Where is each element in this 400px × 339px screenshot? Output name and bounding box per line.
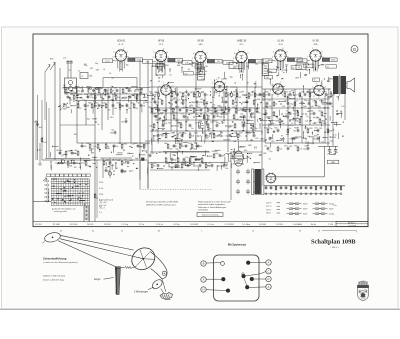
- svg-text:100: 100: [219, 166, 222, 168]
- svg-text:7: 7: [201, 230, 202, 232]
- svg-text:C5: C5: [112, 160, 114, 162]
- svg-text:10k: 10k: [227, 95, 230, 97]
- svg-text:C19: C19: [220, 163, 223, 165]
- svg-text:1n5: 1n5: [43, 142, 46, 144]
- svg-text:S45: S45: [274, 128, 277, 130]
- svg-text:UY 85: UY 85: [312, 40, 319, 42]
- svg-text:350V: 350V: [303, 214, 308, 216]
- svg-text:2k2: 2k2: [155, 75, 158, 77]
- svg-text:15p: 15p: [255, 64, 258, 66]
- svg-text:1k: 1k: [157, 102, 159, 104]
- svg-text:L38: L38: [177, 123, 180, 125]
- svg-text:Innenwiderstand: Innenwiderstand: [99, 198, 113, 201]
- svg-text:10k: 10k: [123, 163, 126, 165]
- svg-text:68k: 68k: [286, 97, 289, 99]
- svg-text:R14: R14: [188, 143, 191, 145]
- svg-text:100: 100: [215, 114, 218, 116]
- svg-text:10k: 10k: [142, 106, 145, 108]
- svg-text:50p: 50p: [75, 97, 78, 99]
- svg-text:S31: S31: [257, 99, 260, 101]
- svg-text:S70: S70: [70, 160, 73, 162]
- svg-text:100: 100: [285, 114, 288, 116]
- svg-text:47: 47: [112, 78, 114, 80]
- svg-text:5: 5: [318, 98, 319, 100]
- svg-text:4798: 4798: [99, 194, 103, 196]
- svg-text:4: 4: [153, 57, 154, 59]
- svg-text:C38: C38: [170, 133, 173, 135]
- svg-text:1M: 1M: [151, 153, 154, 155]
- svg-text:R64: R64: [194, 133, 197, 135]
- svg-text:L55: L55: [125, 88, 128, 90]
- svg-text:3n: 3n: [61, 156, 63, 158]
- svg-text:2n2: 2n2: [253, 171, 256, 173]
- svg-text:S20: S20: [196, 92, 199, 94]
- svg-text:unten gesehen: unten gesehen: [54, 210, 67, 213]
- svg-text:C56: C56: [192, 157, 195, 159]
- svg-text:1k: 1k: [130, 91, 132, 93]
- svg-text:C19: C19: [86, 143, 89, 145]
- svg-text:C63: C63: [130, 103, 133, 105]
- svg-text:2k2: 2k2: [74, 167, 77, 169]
- svg-text:2M2: 2M2: [63, 108, 67, 110]
- svg-text:220: 220: [175, 119, 178, 121]
- svg-text:R42: R42: [148, 107, 151, 109]
- svg-text:68k: 68k: [263, 153, 266, 155]
- svg-text:50p: 50p: [173, 160, 176, 162]
- svg-text:4,5 +0,5: 4,5 +0,5: [100, 202, 108, 204]
- svg-text:30 +3: 30 +3: [100, 208, 106, 210]
- svg-text:6k8: 6k8: [91, 153, 94, 155]
- svg-text:UF 80: UF 80: [197, 40, 204, 42]
- svg-text:C47: C47: [185, 92, 188, 94]
- svg-text:1n5: 1n5: [115, 146, 118, 148]
- svg-text:2M2: 2M2: [123, 143, 127, 145]
- svg-text:100: 100: [83, 146, 86, 148]
- svg-text:R23: R23: [233, 92, 236, 94]
- svg-text:R53: R53: [294, 128, 297, 130]
- svg-text:100: 100: [196, 110, 199, 112]
- svg-text:S49: S49: [155, 107, 158, 109]
- svg-text:6: 6: [216, 79, 217, 81]
- svg-text:330: 330: [313, 139, 316, 141]
- svg-text:6: 6: [193, 53, 194, 55]
- svg-text:B: B: [203, 262, 205, 266]
- svg-text:15p: 15p: [185, 117, 188, 119]
- svg-text:D: D: [268, 277, 270, 281]
- svg-text:1M: 1M: [293, 114, 296, 116]
- svg-text:C64: C64: [204, 123, 207, 125]
- svg-text:3n: 3n: [191, 128, 193, 130]
- svg-text:UL 84: UL 84: [277, 40, 284, 42]
- svg-text:10k: 10k: [175, 138, 178, 140]
- svg-text:6L31: 6L31: [105, 61, 109, 63]
- svg-text:13: 13: [318, 230, 320, 232]
- svg-text:L10: L10: [239, 92, 242, 94]
- svg-text:6: 6: [282, 94, 283, 96]
- svg-text:5n: 5n: [209, 128, 211, 130]
- svg-text:6: 6: [211, 88, 212, 90]
- svg-text:50p: 50p: [215, 153, 218, 155]
- svg-text:L5 Osz: L5 Osz: [208, 224, 214, 226]
- svg-text:C40: C40: [190, 107, 193, 109]
- svg-text:UABC 80: UABC 80: [237, 39, 247, 42]
- svg-text:UCH 81: UCH 81: [117, 40, 126, 42]
- svg-text:330: 330: [73, 153, 76, 155]
- svg-text:0,1: 0,1: [189, 163, 192, 165]
- svg-text:500: 500: [183, 133, 186, 135]
- svg-text:S1: S1: [174, 92, 176, 94]
- svg-text:12k: 12k: [177, 99, 180, 101]
- svg-text:C2 5n: C2 5n: [139, 224, 144, 226]
- svg-text:C33: C33: [102, 103, 105, 105]
- svg-text:5n: 5n: [239, 136, 241, 138]
- svg-text:2: 2: [113, 51, 114, 53]
- svg-text:500: 500: [166, 65, 169, 67]
- svg-text:R42: R42: [194, 143, 197, 145]
- svg-text:R24: R24: [210, 114, 213, 116]
- svg-text:R63: R63: [172, 163, 175, 165]
- svg-text:10k: 10k: [176, 126, 179, 128]
- svg-text:100: 100: [324, 104, 327, 106]
- svg-text:gedruckte Schaltplatte von: gedruckte Schaltplatte von: [52, 207, 76, 210]
- svg-text:12k: 12k: [111, 165, 114, 167]
- svg-text:L4: L4: [103, 69, 105, 71]
- svg-text:S22: S22: [56, 150, 59, 152]
- svg-text:4k7: 4k7: [177, 166, 180, 168]
- svg-text:9: 9: [113, 57, 114, 59]
- svg-text:127 V~: 127 V~: [266, 206, 273, 208]
- svg-text:2M2: 2M2: [248, 145, 252, 147]
- svg-text:C58: C58: [304, 146, 307, 148]
- svg-text:1n5: 1n5: [341, 106, 344, 108]
- svg-text:0,1: 0,1: [235, 102, 238, 104]
- svg-text:10k: 10k: [301, 114, 304, 116]
- svg-text:Mit Spulensatz: Mit Spulensatz: [228, 242, 247, 246]
- svg-text:ZF Durchlass 452 kHz ±2 kHz: ZF Durchlass 452 kHz ±2 kHz UKW: [146, 201, 178, 203]
- svg-text:5n: 5n: [156, 130, 158, 132]
- svg-text:15p: 15p: [84, 65, 87, 67]
- svg-text:1n5: 1n5: [299, 149, 302, 151]
- svg-text:6k8: 6k8: [96, 70, 99, 72]
- svg-text:4k7: 4k7: [332, 95, 335, 97]
- svg-text:2M2: 2M2: [129, 160, 133, 162]
- svg-text:4: 4: [205, 63, 206, 65]
- svg-text:R71: R71: [190, 114, 193, 116]
- svg-text:L15: L15: [316, 118, 319, 120]
- svg-text:3n: 3n: [72, 91, 74, 93]
- svg-text:C47: C47: [306, 92, 309, 94]
- svg-text:2: 2: [248, 53, 249, 55]
- svg-text:9-62 4798: 9-62 4798: [348, 225, 356, 227]
- svg-text:S47: S47: [118, 143, 121, 145]
- svg-text:330: 330: [309, 128, 312, 130]
- svg-text:1M: 1M: [121, 122, 124, 124]
- svg-text:1: 1: [312, 87, 313, 89]
- svg-text:( 109 U ): ( 109 U ): [330, 247, 338, 249]
- svg-text:L2: L2: [81, 76, 83, 78]
- svg-text:S56: S56: [149, 92, 152, 94]
- svg-text:6k8: 6k8: [197, 160, 200, 162]
- svg-text:70p: 70p: [295, 121, 298, 123]
- svg-text:1k: 1k: [109, 73, 111, 75]
- svg-text:4k7: 4k7: [135, 108, 138, 110]
- svg-text:20p: 20p: [95, 63, 98, 65]
- svg-text:2n2: 2n2: [253, 191, 256, 193]
- svg-text:15p: 15p: [185, 157, 188, 159]
- svg-text:40n: 40n: [195, 114, 198, 116]
- svg-text:1M: 1M: [195, 97, 198, 99]
- svg-text:S47: S47: [318, 111, 321, 113]
- svg-text:10k: 10k: [225, 168, 228, 170]
- svg-text:330: 330: [153, 163, 156, 165]
- svg-text:1M: 1M: [205, 66, 208, 68]
- svg-text:1n5: 1n5: [82, 100, 85, 102]
- svg-text:S71: S71: [160, 114, 163, 116]
- svg-text:20: 20: [92, 230, 94, 232]
- svg-text:C74: C74: [304, 128, 307, 130]
- svg-text:L46: L46: [74, 150, 77, 152]
- svg-text:7: 7: [312, 48, 313, 50]
- svg-text:3n: 3n: [136, 88, 138, 90]
- svg-text:40n: 40n: [153, 136, 156, 138]
- svg-text:1n5: 1n5: [164, 123, 167, 125]
- svg-text:L51: L51: [77, 94, 80, 96]
- svg-text:C3 0,1µ: C3 0,1µ: [156, 224, 164, 226]
- svg-text:L34: L34: [124, 160, 127, 162]
- svg-text:47: 47: [289, 106, 291, 108]
- svg-text:100: 100: [207, 166, 210, 168]
- svg-text:0,1: 0,1: [228, 161, 231, 163]
- svg-text:L56: L56: [240, 114, 243, 116]
- svg-text:47: 47: [79, 108, 81, 110]
- svg-text:50p: 50p: [207, 136, 210, 138]
- svg-text:0,1: 0,1: [321, 142, 324, 144]
- svg-text:15p: 15p: [271, 123, 274, 125]
- svg-text:R7: R7: [195, 123, 197, 125]
- svg-text:330: 330: [271, 141, 274, 143]
- svg-text:3: 3: [165, 62, 166, 64]
- svg-text:6: 6: [233, 58, 234, 60]
- svg-text:10k: 10k: [217, 136, 220, 138]
- svg-text:12k: 12k: [91, 149, 94, 151]
- svg-text:47: 47: [159, 152, 161, 154]
- svg-text:L12: L12: [201, 92, 204, 94]
- svg-text:S73: S73: [284, 146, 287, 148]
- svg-text:6k8: 6k8: [197, 72, 200, 74]
- svg-text:220: 220: [255, 138, 258, 140]
- svg-text:EM: EM: [244, 150, 247, 152]
- svg-text:4798: 4798: [99, 182, 103, 184]
- svg-text:R29: R29: [84, 94, 87, 96]
- svg-text:45 B: 45 B: [278, 44, 283, 46]
- svg-text:B245: B245: [331, 60, 335, 62]
- svg-text:47: 47: [175, 146, 177, 148]
- svg-text:S79: S79: [172, 99, 175, 101]
- svg-text:9: 9: [153, 52, 154, 54]
- svg-text:( zutiefst von der Skalenseite: ( zutiefst von der Skalenseite gesehen ): [43, 261, 78, 264]
- svg-text:Schnurlaufführung: Schnurlaufführung: [43, 256, 67, 260]
- svg-text:C50: C50: [158, 99, 161, 101]
- svg-text:7: 7: [163, 83, 164, 85]
- svg-text:50p: 50p: [87, 166, 90, 168]
- svg-text:5n: 5n: [314, 80, 316, 82]
- svg-text:47: 47: [96, 198, 98, 200]
- svg-text:2M2: 2M2: [323, 123, 327, 125]
- svg-text:L23: L23: [169, 107, 172, 109]
- svg-text:70p: 70p: [90, 97, 93, 99]
- svg-text:2M2: 2M2: [110, 100, 114, 102]
- svg-text:6k8: 6k8: [329, 131, 332, 133]
- svg-text:500: 500: [192, 102, 195, 104]
- svg-text:L61: L61: [137, 103, 140, 105]
- svg-text:330: 330: [97, 95, 100, 97]
- svg-text:R47: R47: [92, 119, 95, 121]
- svg-text:5n: 5n: [69, 163, 71, 165]
- svg-text:40n: 40n: [230, 126, 233, 128]
- svg-text:1k: 1k: [289, 128, 291, 130]
- svg-text:1k: 1k: [161, 136, 163, 138]
- svg-text:5n: 5n: [269, 71, 271, 73]
- svg-text:L72: L72: [251, 92, 254, 94]
- svg-text:T 708: T 708: [328, 224, 334, 226]
- svg-text:50p: 50p: [184, 99, 187, 101]
- svg-text:S49: S49: [183, 107, 186, 109]
- svg-text:Zeiger: Zeiger: [94, 278, 101, 281]
- svg-text:47: 47: [224, 110, 226, 112]
- svg-text:S47: S47: [148, 163, 151, 165]
- svg-text:3n: 3n: [265, 68, 267, 70]
- svg-text:0,1: 0,1: [78, 91, 81, 93]
- svg-text:9: 9: [313, 96, 314, 98]
- svg-text:500: 500: [124, 97, 127, 99]
- svg-text:C25: C25: [218, 107, 221, 109]
- svg-text:0,1: 0,1: [269, 159, 272, 161]
- svg-text:5n: 5n: [327, 66, 329, 68]
- svg-text:220: 220: [244, 110, 247, 112]
- svg-text:2: 2: [238, 49, 239, 51]
- svg-text:47: 47: [39, 150, 41, 152]
- svg-text:1k2: 1k2: [217, 61, 220, 63]
- svg-text:C1: C1: [140, 143, 142, 145]
- svg-text:S57: S57: [284, 101, 287, 103]
- svg-text:500: 500: [317, 106, 320, 108]
- svg-text:12 E: 12 E: [159, 44, 164, 46]
- svg-text:2M2: 2M2: [236, 162, 240, 164]
- svg-text:5n: 5n: [331, 106, 333, 108]
- svg-text:70p: 70p: [281, 123, 284, 125]
- svg-text:L64: L64: [232, 107, 235, 109]
- svg-text:L5: L5: [286, 92, 288, 94]
- svg-text:L11: L11: [70, 94, 73, 96]
- svg-text:10k: 10k: [245, 123, 248, 125]
- svg-text:4k7: 4k7: [264, 95, 267, 97]
- svg-text:3n: 3n: [97, 124, 99, 126]
- svg-text:3n: 3n: [153, 166, 155, 168]
- svg-text:4k7: 4k7: [222, 79, 225, 81]
- svg-text:70p: 70p: [269, 128, 272, 130]
- svg-text:68k: 68k: [154, 95, 157, 97]
- svg-text:C56: C56: [178, 133, 181, 135]
- svg-text:1k: 1k: [165, 119, 167, 121]
- svg-text:1M: 1M: [157, 119, 160, 121]
- svg-text:350V: 350V: [303, 209, 308, 211]
- svg-text:1: 1: [280, 82, 281, 84]
- svg-text:R14: R14: [79, 88, 82, 90]
- svg-text:330: 330: [205, 119, 208, 121]
- svg-text:L19: L19: [62, 88, 65, 90]
- svg-text:3: 3: [225, 83, 226, 85]
- svg-text:A: A: [268, 285, 270, 289]
- svg-text:L79: L79: [264, 146, 267, 148]
- svg-text:4k7: 4k7: [114, 108, 117, 110]
- svg-text:L2: L2: [296, 118, 298, 120]
- svg-text:330: 330: [190, 92, 193, 94]
- svg-text:4k7: 4k7: [221, 156, 224, 158]
- svg-text:500: 500: [161, 110, 164, 112]
- svg-text:500: 500: [149, 126, 152, 128]
- svg-text:1k: 1k: [107, 146, 109, 148]
- svg-text:220: 220: [247, 133, 250, 135]
- svg-text:3n: 3n: [273, 131, 275, 133]
- svg-text:50p: 50p: [303, 149, 306, 151]
- svg-text:8: 8: [287, 51, 288, 53]
- svg-text:C74: C74: [222, 92, 225, 94]
- svg-text:L7: L7: [286, 111, 288, 113]
- svg-text:15p: 15p: [239, 132, 242, 134]
- svg-text:1k: 1k: [150, 102, 152, 104]
- svg-text:5n: 5n: [253, 181, 255, 183]
- svg-text:R27: R27: [250, 114, 253, 116]
- svg-text:4: 4: [163, 48, 164, 50]
- svg-text:6k8: 6k8: [177, 65, 180, 67]
- svg-text:47: 47: [131, 171, 133, 173]
- svg-text:1n5: 1n5: [69, 100, 72, 102]
- svg-text:50p: 50p: [214, 92, 217, 94]
- svg-text:220 V~: 220 V~: [266, 203, 273, 205]
- svg-text:1n5: 1n5: [291, 95, 294, 97]
- svg-text:Istwert ca 845 mm lang: Istwert ca 845 mm lang: [43, 278, 64, 281]
- svg-text:R3 220k: R3 220k: [70, 224, 77, 226]
- svg-text:1k: 1k: [283, 139, 285, 141]
- svg-text:1M: 1M: [170, 109, 173, 111]
- svg-text:10k: 10k: [233, 95, 236, 97]
- svg-text:S48: S48: [204, 107, 207, 109]
- svg-text:47: 47: [112, 91, 114, 93]
- svg-text:C1 50p: C1 50p: [122, 224, 129, 226]
- svg-text:8: 8: [275, 61, 276, 63]
- svg-text:220: 220: [267, 100, 270, 102]
- svg-text:2: 2: [272, 57, 273, 59]
- svg-text:R74: R74: [170, 114, 173, 116]
- svg-text:50p: 50p: [307, 136, 310, 138]
- svg-text:4k7: 4k7: [233, 68, 236, 70]
- svg-text:110 V~: 110 V~: [266, 209, 273, 211]
- svg-text:500: 500: [169, 149, 172, 151]
- svg-text:330: 330: [124, 93, 127, 95]
- svg-text:500: 500: [237, 110, 240, 112]
- svg-text:38B3: 38B3: [331, 162, 335, 164]
- svg-text:4: 4: [282, 48, 283, 50]
- svg-text:10k: 10k: [191, 136, 194, 138]
- svg-text:3n: 3n: [311, 92, 313, 94]
- svg-text:2: 2: [202, 49, 203, 51]
- svg-text:2: 2: [115, 61, 116, 63]
- svg-text:1M: 1M: [319, 128, 322, 130]
- svg-text:K 4: K 4: [99, 212, 102, 214]
- svg-text:3n: 3n: [306, 116, 308, 118]
- svg-text:47: 47: [291, 123, 293, 125]
- svg-text:6: 6: [321, 83, 322, 85]
